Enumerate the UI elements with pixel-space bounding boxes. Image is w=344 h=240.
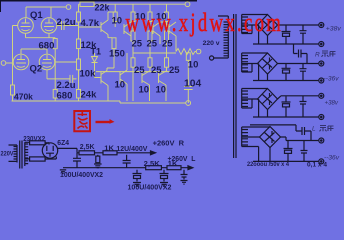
- svg-text:22k: 22k: [95, 3, 111, 13]
- node terminal +38v L: [319, 93, 324, 98]
- node terminal gnd L top: [319, 115, 324, 120]
- svg-text:10: 10: [156, 85, 167, 96]
- ground: [94, 164, 102, 168]
- svg-text:2,5K: 2,5K: [144, 161, 160, 168]
- capacitor 22000u u3: [282, 96, 291, 117]
- svg-text:104: 104: [184, 78, 201, 89]
- wire +38v rail R: [268, 25, 319, 44]
- capacitor filter a: [73, 153, 81, 168]
- capacitor 0.1 u2: [300, 64, 307, 81]
- wire rail F: [253, 116, 318, 118]
- wire secondary top lead: [25, 141, 30, 143]
- resistor 680 second: [53, 89, 57, 98]
- node 220v terminal: [210, 56, 214, 60]
- transformer T2 core: [20, 141, 22, 169]
- wire: [54, 49, 56, 79]
- node terminal -36v L: [319, 159, 324, 164]
- wire heater top rail Q1: [26, 7, 66, 18]
- wire bottom rail: [12, 101, 186, 103]
- wire W1 leads: [242, 15, 268, 45]
- resistor 4.7k: [77, 12, 81, 22]
- svg-text:22ooou /50v x 4: 22ooou /50v x 4: [247, 161, 289, 168]
- wire row emitter: [96, 71, 170, 73]
- svg-text:10: 10: [112, 16, 123, 27]
- svg-text:10: 10: [139, 85, 150, 96]
- tube Q1b: [41, 18, 57, 34]
- wire rail B: [253, 43, 318, 45]
- svg-text:6Z4: 6Z4: [57, 140, 69, 147]
- svg-text:25: 25: [169, 65, 180, 76]
- svg-text:10k: 10k: [80, 69, 97, 80]
- rectifier bridge D2: [258, 53, 278, 74]
- transistor mid3: [169, 22, 176, 52]
- wire 6Z4 output: [58, 148, 77, 152]
- transistor C: [142, 71, 150, 101]
- transformer main primary: [214, 16, 229, 58]
- transistor mid2: [153, 22, 164, 44]
- wire rail H -36v L: [253, 160, 318, 162]
- svg-text:25: 25: [151, 65, 162, 76]
- capacitor 104: [184, 60, 193, 103]
- svg-text:12U/400V: 12U/400V: [116, 146, 147, 153]
- node input terminal: [1, 61, 6, 66]
- capacitor 2.2u coupling: [57, 21, 79, 30]
- resistor 10 col2: [132, 4, 134, 12]
- border left edge: [0, 0, 2, 12]
- wire +38v rail L: [268, 96, 319, 117]
- capacitor 0.1 between grounds R: [294, 44, 308, 64]
- resistor 1K: [103, 151, 117, 155]
- svg-text:--36v: --36v: [324, 76, 340, 83]
- transistor D: [159, 71, 167, 101]
- svg-text:150: 150: [109, 49, 125, 60]
- resistor 25 row1 col3: [148, 31, 152, 41]
- svg-text:1K: 1K: [168, 161, 178, 168]
- wire secondary bottom lead: [25, 158, 30, 160]
- node top rail terminal: [185, 2, 190, 7]
- transistor driver: [79, 12, 116, 38]
- svg-text:+38v: +38v: [325, 100, 339, 107]
- resistor winding top: [30, 141, 45, 145]
- svg-text:25: 25: [162, 39, 173, 50]
- svg-text:230VX2: 230VX2: [23, 136, 45, 143]
- transformer T2 secondary: [25, 142, 28, 166]
- resistor 12k: [77, 39, 81, 49]
- ground rail2 left: [60, 170, 66, 174]
- svg-text:220V: 220V: [1, 150, 14, 157]
- resistor bleeder: [97, 155, 99, 156]
- svg-text:+38v: +38v: [326, 25, 342, 32]
- svg-text:100U/400VX2: 100U/400VX2: [128, 183, 172, 192]
- node heater terminal: [66, 5, 71, 10]
- wire rail G: [270, 137, 318, 161]
- svg-text:4.7k: 4.7k: [81, 18, 100, 29]
- svg-text:Q1: Q1: [30, 10, 43, 21]
- label figure one (red): [74, 111, 114, 131]
- winding secondary W1: [242, 15, 248, 34]
- transistor B: [120, 53, 127, 101]
- resistor 150: [112, 38, 116, 49]
- svg-text:+260V R: +260V R: [153, 141, 184, 148]
- svg-text:100U/400VX2: 100U/400VX2: [60, 170, 103, 179]
- resistor 25 row2 col3: [148, 58, 152, 67]
- resistor 10k: [77, 59, 81, 70]
- resistor 25 row2 col4: [165, 58, 169, 67]
- transformer main core: [234, 14, 236, 158]
- wire W2 leads: [242, 53, 268, 81]
- node bottom terminal: [186, 101, 191, 106]
- ground: [133, 183, 141, 187]
- wire top rail: [79, 3, 186, 5]
- wire Q2 heaters: [21, 49, 47, 54]
- wire row mid: [133, 52, 176, 54]
- tube Q2a: [13, 54, 29, 70]
- winding secondary W3: [242, 89, 248, 109]
- svg-text:--36v: --36v: [324, 154, 340, 161]
- node terminal gnd R top: [319, 42, 324, 47]
- wire Q2 cathode row: [47, 70, 70, 79]
- transistor A: [95, 68, 109, 101]
- resistor 10 col4: [166, 4, 168, 12]
- svg-text:680: 680: [39, 41, 55, 52]
- wire W4 leads: [242, 127, 270, 162]
- svg-text:25: 25: [147, 39, 158, 50]
- svg-text:25: 25: [132, 39, 143, 50]
- rectifier bridge D4: [260, 127, 281, 148]
- wire rail C: [268, 64, 319, 81]
- svg-text:R: R: [315, 51, 320, 58]
- resistor zigzag output: [176, 49, 196, 55]
- resistor 10 zobel: [187, 52, 189, 53]
- node terminal gnd L bottom: [319, 138, 324, 143]
- wire W3 leads: [242, 89, 268, 118]
- border top edge: [0, 0, 197, 2]
- svg-text:470k: 470k: [14, 92, 33, 102]
- resistor 10 col3: [149, 4, 151, 12]
- resistor 2.5K second: [146, 166, 162, 170]
- svg-text:10: 10: [188, 60, 199, 71]
- svg-text:2,5K: 2,5K: [80, 144, 95, 151]
- rectifier bridge D3: [258, 89, 278, 110]
- resistor 2.5K: [79, 151, 95, 155]
- resistor 25 row2 col2: [131, 58, 135, 67]
- node terminal +38v R: [319, 23, 324, 28]
- capacitor 0.1 u1: [300, 25, 307, 44]
- capacitor 12U/400V: [123, 155, 131, 168]
- wire arrow +260V R: [151, 151, 156, 155]
- svg-text:0,1 x 4: 0,1 x 4: [307, 161, 327, 168]
- svg-text:680: 680: [57, 91, 73, 102]
- wire ground midline L: [250, 125, 296, 131]
- svg-text:25: 25: [134, 65, 145, 76]
- capacitor 22000u u4: [284, 141, 293, 162]
- resistor 10 col1: [114, 4, 116, 12]
- capacitor output L with ground: [181, 170, 188, 184]
- ground: [160, 183, 168, 187]
- winding secondary W4: [242, 127, 248, 147]
- tube Q1a: [18, 18, 34, 34]
- svg-text:220 v: 220 v: [203, 40, 220, 47]
- svg-text:10: 10: [115, 80, 126, 91]
- tube 6Z4: [42, 143, 57, 158]
- capacitor 0.1 between grounds L: [296, 127, 311, 141]
- resistor 470k: [11, 85, 15, 95]
- node output terminal: [196, 49, 201, 54]
- svg-text:2.2u: 2.2u: [57, 80, 76, 91]
- capacitor 22000u u2: [282, 64, 291, 81]
- watermark www.xjdwx.com: [126, 8, 284, 37]
- wire arrow +260V L: [188, 166, 193, 170]
- wire left rail: [78, 4, 80, 12]
- svg-text:T1: T1: [91, 47, 102, 57]
- wire rail D -36v R: [253, 80, 318, 82]
- resistor 680 (Q1 cathode): [53, 39, 57, 49]
- capacitor 0.1 u3: [300, 96, 307, 117]
- svg-text:1K: 1K: [104, 146, 114, 153]
- tube Q2b: [39, 54, 55, 70]
- transistor mid1: [124, 22, 133, 41]
- resistor 24k: [77, 89, 81, 98]
- svg-text:www.xjdwx.com: www.xjdwx.com: [126, 8, 284, 37]
- resistor winding bottom: [30, 157, 45, 161]
- capacitor 2.2u second: [70, 75, 77, 83]
- capacitor 0.1 u4: [301, 141, 308, 162]
- capacitor 100U b: [160, 170, 169, 182]
- rectifier bridge D1: [258, 15, 278, 36]
- winding secondary W2: [242, 53, 248, 72]
- wire Q2 anode: [55, 61, 77, 63]
- capacitor 100U a: [133, 170, 142, 182]
- svg-text:24k: 24k: [81, 90, 98, 101]
- wire Q1 cathodes: [26, 33, 56, 38]
- svg-text:Q2: Q2: [30, 64, 43, 75]
- transformer T2 primary: [9, 145, 18, 163]
- wire rail2: [63, 167, 188, 169]
- resistor 25 row1 col2: [131, 31, 135, 41]
- diode T1: [94, 53, 96, 57]
- capacitor 22000u u1: [282, 25, 291, 44]
- resistor 25 row1 col4: [165, 31, 169, 41]
- resistor 22k (top rail): [80, 2, 94, 7]
- node terminal -36v R: [319, 78, 324, 83]
- node terminal gnd R bottom: [319, 61, 324, 66]
- svg-text:2.2u: 2.2u: [57, 17, 76, 28]
- resistor 1K second: [167, 166, 181, 170]
- svg-text:L: L: [312, 126, 316, 133]
